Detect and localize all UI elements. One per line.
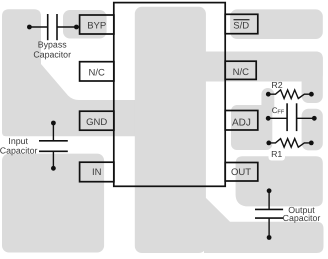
svg-text:R2: R2 <box>271 80 282 90</box>
svg-text:Capacitor: Capacitor <box>33 49 71 59</box>
pin box ADJ <box>225 111 258 131</box>
pin box N/C (left) <box>80 62 114 81</box>
svg-text:R1: R1 <box>271 149 282 159</box>
svg-text:N/C: N/C <box>89 67 106 78</box>
node dot Cff right <box>312 116 317 121</box>
svg-text:Capacitor: Capacitor <box>0 146 37 156</box>
wire Cff right lead <box>297 117 315 119</box>
net OUT copper region <box>236 156 323 206</box>
node dot R1 right <box>309 141 314 146</box>
label Output Capacitor <box>283 205 321 223</box>
capacitor C1 bypass plates <box>48 14 57 40</box>
pin box GND <box>80 111 114 130</box>
wire input capacitor bottom lead <box>52 151 54 168</box>
svg-text:S/D: S/D <box>233 20 249 31</box>
pin box N/C (right) <box>225 61 256 79</box>
wire bypass capacitor left lead <box>29 26 47 28</box>
svg-text:N/C: N/C <box>233 67 250 78</box>
wire output capacitor top lead <box>268 191 270 210</box>
svg-text:ADJ: ADJ <box>232 118 251 129</box>
net R2 right column (upper) <box>302 52 323 104</box>
node dot bypass left (ground pour) <box>27 25 32 30</box>
node dot input cap bottom (IN pour) <box>51 166 56 171</box>
node dot R1 left (ADJ) <box>266 141 271 146</box>
svg-text:Bypass: Bypass <box>38 40 67 50</box>
wire output capacitor bottom lead <box>268 218 270 237</box>
regulator IC U1 body <box>114 3 225 187</box>
pin box IN <box>80 162 114 182</box>
net ADJ copper column <box>261 88 274 114</box>
pin box S/D (active-low shutdown) <box>225 14 258 33</box>
capacitor C2 input plates <box>39 141 68 152</box>
svg-text:OUT: OUT <box>231 167 251 178</box>
net S/D trace band <box>230 9 323 39</box>
svg-text:Input: Input <box>8 136 28 146</box>
pin box BYP <box>80 15 114 34</box>
node dot R2 right <box>309 92 314 97</box>
net IN copper pour (bottom-left) <box>2 154 104 253</box>
net Cff/R1 right column (lower) <box>302 109 323 151</box>
svg-text:FF: FF <box>277 109 284 115</box>
svg-text:Capacitor: Capacitor <box>283 213 321 223</box>
net GND pad bottom extension and bottom strip <box>204 196 324 253</box>
node dot bypass right (BYP trace) <box>74 25 79 30</box>
net N/C band (right) <box>200 52 323 82</box>
node dot output cap bottom (ground strip) <box>267 235 272 240</box>
wire input capacitor top lead <box>52 123 54 141</box>
node dot Cff left (ADJ) <box>266 116 271 121</box>
node dot input cap top (ground pour) <box>51 121 56 126</box>
resistor R1 <box>269 139 312 148</box>
node dot R2 left (ADJ) <box>266 92 271 97</box>
wire Cff left lead <box>268 117 287 119</box>
net GND thermal pad (center) <box>135 7 206 253</box>
svg-text:GND: GND <box>86 117 107 128</box>
white clearance notch around R1 label <box>269 151 286 161</box>
net BYP trace <box>63 10 107 39</box>
capacitor Cff plates <box>287 103 297 131</box>
svg-text:BYP: BYP <box>87 21 106 32</box>
net GND copper pour (top-left, with diagonal to GND pin) <box>2 9 136 136</box>
svg-text:IN: IN <box>92 167 102 178</box>
node dot output cap top (OUT region) <box>267 188 272 193</box>
net ADJ trace island <box>231 105 272 150</box>
label Cff <box>272 106 285 115</box>
label Bypass Capacitor <box>33 40 71 60</box>
pin box OUT <box>225 163 258 182</box>
capacitor C3 output plates <box>255 209 283 218</box>
wire bypass capacitor to BYP pin <box>57 26 80 28</box>
label Input Capacitor <box>0 136 37 156</box>
resistor R2 <box>268 90 311 99</box>
